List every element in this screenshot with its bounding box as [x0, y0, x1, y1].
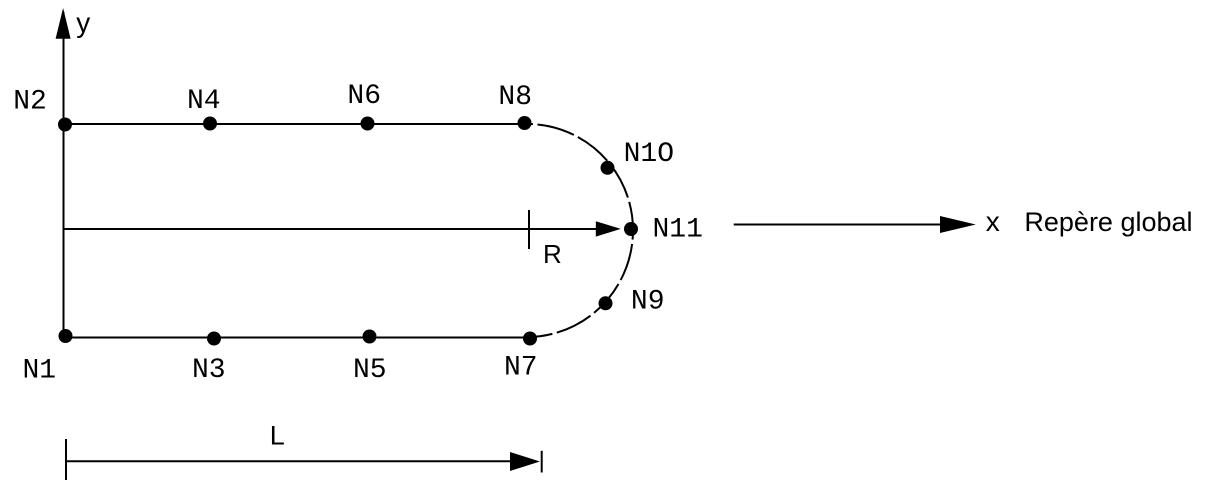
- svg-text:L: L: [270, 420, 285, 450]
- svg-text:Repère global: Repère global: [1024, 207, 1192, 237]
- svg-text:N3: N3: [192, 355, 226, 386]
- svg-text:N9: N9: [631, 287, 665, 318]
- svg-text:N1O: N1O: [624, 139, 674, 170]
- svg-text:x: x: [986, 206, 1000, 237]
- svg-text:N7: N7: [504, 353, 538, 384]
- svg-text:N6: N6: [347, 81, 381, 112]
- svg-text:y: y: [76, 7, 90, 38]
- svg-text:N1: N1: [23, 355, 57, 386]
- svg-text:N8: N8: [498, 82, 532, 113]
- svg-text:R: R: [543, 239, 562, 269]
- svg-text:N5: N5: [353, 355, 387, 386]
- svg-text:N11: N11: [653, 214, 703, 245]
- svg-text:N2: N2: [13, 86, 47, 117]
- svg-text:N4: N4: [187, 86, 221, 117]
